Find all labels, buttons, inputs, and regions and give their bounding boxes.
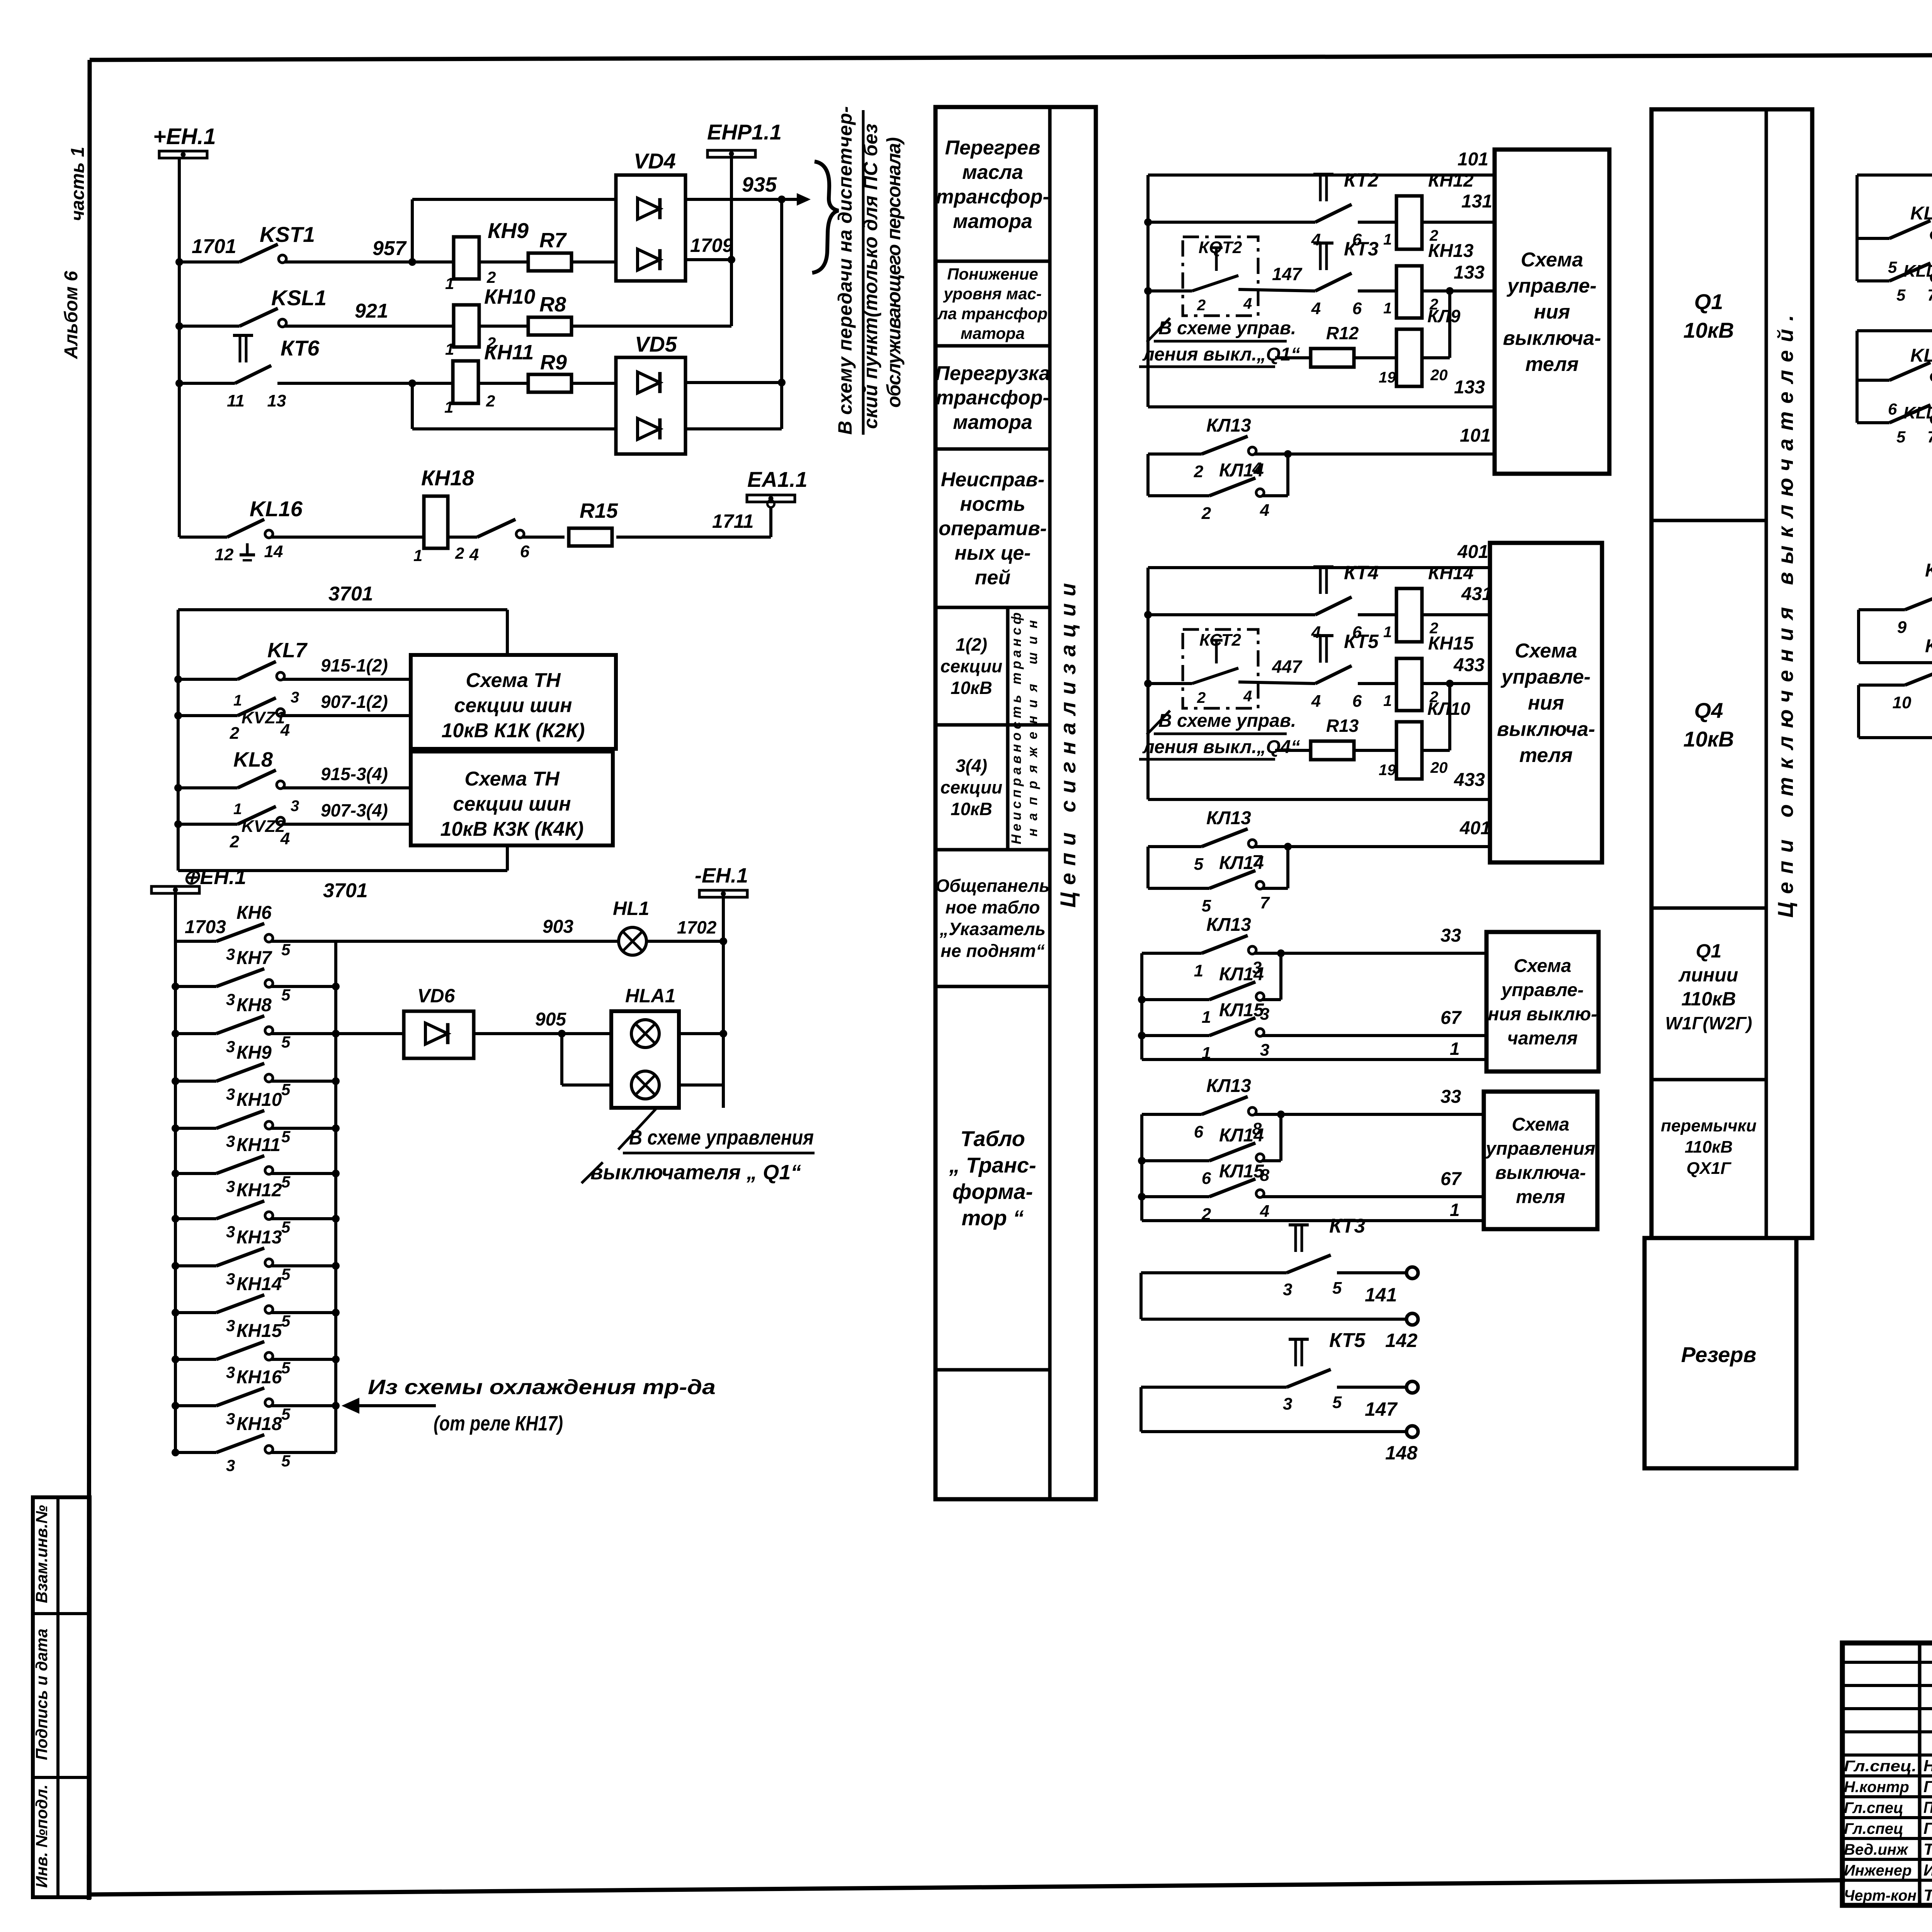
svg-text:110кВ: 110кВ (1685, 1138, 1733, 1156)
svg-text:1: 1 (1202, 1008, 1211, 1027)
svg-text:5: 5 (281, 1452, 291, 1470)
svg-text:R8: R8 (539, 293, 566, 316)
svg-text:5: 5 (281, 1173, 291, 1191)
svg-text:3: 3 (1283, 1395, 1292, 1413)
svg-text:трансфор-: трансфор- (936, 387, 1049, 409)
svg-text:7: 7 (1260, 893, 1270, 912)
svg-text:2: 2 (1201, 504, 1211, 523)
svg-text:5: 5 (1194, 855, 1204, 874)
svg-text:2: 2 (1197, 689, 1206, 706)
svg-text:957: 957 (372, 237, 407, 260)
svg-text:КН12: КН12 (236, 1180, 282, 1201)
svg-text:ных це-: ных це- (954, 542, 1031, 565)
svg-text:КЛ13: КЛ13 (1206, 808, 1251, 828)
svg-text:2: 2 (455, 544, 464, 562)
svg-text:1: 1 (445, 274, 454, 293)
svg-text:3: 3 (226, 1316, 235, 1335)
svg-text:5: 5 (281, 1033, 291, 1051)
svg-text:Горелик: Горелик (1923, 1777, 1932, 1796)
svg-text:КН9: КН9 (236, 1043, 272, 1063)
svg-text:6: 6 (1202, 1169, 1211, 1188)
svg-text:3(4): 3(4) (956, 755, 987, 776)
svg-text:теля: теля (1525, 353, 1578, 376)
svg-text:КН18: КН18 (236, 1414, 282, 1434)
svg-text:КН16: КН16 (236, 1367, 282, 1388)
svg-text:тор “: тор “ (961, 1206, 1024, 1230)
svg-text:10кВ: 10кВ (951, 799, 992, 819)
svg-text:3: 3 (226, 1177, 235, 1196)
svg-text:1702: 1702 (677, 917, 717, 937)
svg-text:Подпись и дата: Подпись и дата (32, 1629, 51, 1760)
svg-text:2: 2 (230, 724, 240, 743)
svg-text:1: 1 (413, 546, 422, 565)
svg-text:4: 4 (469, 545, 479, 564)
svg-text:110кВ: 110кВ (1681, 988, 1736, 1010)
svg-text:VD6: VD6 (417, 985, 455, 1007)
svg-text:управле-: управле- (1501, 980, 1584, 1000)
svg-text:Тимофеева: Тимофеева (1923, 1886, 1932, 1904)
svg-text:921: 921 (355, 300, 388, 322)
svg-text:EA1.1: EA1.1 (747, 467, 808, 492)
svg-text:6: 6 (1194, 1122, 1204, 1141)
svg-text:Альбом 6: Альбом 6 (61, 271, 82, 359)
svg-text:7: 7 (1927, 428, 1932, 446)
svg-text:-EH.1: -EH.1 (695, 864, 748, 887)
svg-text:3701: 3701 (328, 583, 373, 605)
svg-text:3: 3 (291, 689, 299, 706)
svg-text:1: 1 (1194, 961, 1203, 980)
svg-text:935: 935 (742, 173, 777, 196)
svg-text:Вед.инж: Вед.инж (1844, 1841, 1909, 1858)
svg-text:КЛ13: КЛ13 (1206, 915, 1251, 935)
svg-text:секции шин: секции шин (453, 793, 571, 815)
svg-text:KSL1: KSL1 (271, 286, 327, 310)
svg-text:В схему передачи на диспетчер-: В схему передачи на диспетчер- (834, 106, 856, 435)
svg-text:КН13: КН13 (1428, 241, 1474, 261)
svg-text:R9: R9 (540, 351, 567, 374)
svg-text:Цепи сигнализации: Цепи сигнализации (1056, 583, 1080, 908)
svg-text:КТ4: КТ4 (1344, 562, 1379, 583)
svg-text:В схеме управ.: В схеме управ. (1158, 711, 1296, 731)
svg-text:перемычки: перемычки (1661, 1116, 1757, 1135)
svg-text:Гл.спец: Гл.спец (1844, 1820, 1903, 1837)
svg-text:101: 101 (1458, 149, 1488, 170)
svg-text:2: 2 (1194, 462, 1204, 481)
svg-text:VD4: VD4 (634, 149, 676, 173)
svg-text:QX1Г: QX1Г (1686, 1159, 1731, 1178)
svg-text:1711: 1711 (712, 510, 754, 532)
svg-text:выключателя „ Q1“: выключателя „ Q1“ (590, 1161, 801, 1184)
svg-text:9: 9 (1897, 618, 1907, 637)
svg-text:5: 5 (281, 1265, 291, 1283)
svg-text:Понижение: Понижение (947, 265, 1038, 283)
svg-text:ления выкл.„Q4“: ления выкл.„Q4“ (1142, 737, 1300, 757)
svg-text:3: 3 (226, 945, 235, 963)
svg-text:Табло: Табло (960, 1126, 1025, 1151)
svg-text:3: 3 (1283, 1280, 1292, 1299)
svg-text:3: 3 (226, 1456, 235, 1475)
svg-text:14: 14 (264, 542, 283, 561)
svg-text:3: 3 (226, 1132, 235, 1150)
svg-text:907-3(4): 907-3(4) (321, 800, 388, 820)
svg-text:(от реле КН17): (от реле КН17) (434, 1412, 563, 1435)
svg-text:1: 1 (1450, 1200, 1460, 1220)
svg-text:1: 1 (1450, 1039, 1460, 1059)
svg-text:R12: R12 (1326, 323, 1359, 343)
svg-text:КЛ13: КЛ13 (1206, 415, 1251, 436)
svg-text:903: 903 (543, 917, 573, 937)
svg-text:Q1: Q1 (1696, 940, 1722, 962)
svg-text:Схема ТН: Схема ТН (464, 768, 560, 790)
svg-text:КН15: КН15 (1428, 633, 1474, 654)
svg-text:КН14: КН14 (236, 1274, 282, 1294)
svg-text:5: 5 (1332, 1393, 1342, 1412)
svg-text:5: 5 (1896, 428, 1906, 446)
svg-text:ния: ния (1534, 301, 1570, 323)
svg-text:KLD2: KLD2 (1925, 560, 1932, 581)
svg-text:ла трансфор: ла трансфор (937, 304, 1048, 323)
svg-text:КЛ14: КЛ14 (1219, 460, 1264, 481)
svg-text:905: 905 (535, 1009, 566, 1030)
svg-text:10кВ: 10кВ (1683, 727, 1734, 751)
svg-text:матора: матора (953, 210, 1032, 233)
svg-text:KVZ2: KVZ2 (241, 817, 285, 836)
svg-text:KLD2: KLD2 (1925, 636, 1932, 656)
svg-text:форма-: форма- (952, 1179, 1033, 1204)
svg-text:1: 1 (1383, 231, 1392, 248)
svg-text:КН7: КН7 (236, 948, 272, 968)
svg-text:В схеме управления: В схеме управления (629, 1126, 814, 1149)
svg-text:часть 1: часть 1 (68, 147, 88, 221)
svg-text:Взам.инв.№: Взам.инв.№ (32, 1505, 51, 1603)
svg-text:Резерв: Резерв (1681, 1342, 1757, 1367)
svg-text:19: 19 (1379, 762, 1396, 779)
svg-text:3: 3 (226, 1037, 235, 1056)
svg-text:133: 133 (1454, 262, 1485, 283)
svg-text:133: 133 (1454, 377, 1485, 398)
svg-text:КТ3: КТ3 (1344, 238, 1379, 260)
svg-text:401: 401 (1457, 542, 1488, 562)
svg-text:Иванова: Иванова (1923, 1861, 1932, 1879)
svg-text:выключа-: выключа- (1495, 1163, 1586, 1183)
svg-text:R15: R15 (580, 499, 618, 522)
svg-text:КН8: КН8 (236, 995, 272, 1015)
svg-text:4: 4 (1311, 692, 1321, 711)
svg-text:915-1(2): 915-1(2) (321, 655, 388, 675)
svg-text:101: 101 (1460, 425, 1491, 446)
svg-text:3: 3 (226, 1085, 235, 1103)
svg-text:ния выклю-: ния выклю- (1488, 1004, 1597, 1025)
svg-text:HL1: HL1 (613, 898, 649, 919)
svg-text:907-1(2): 907-1(2) (321, 692, 388, 712)
svg-text:6: 6 (1352, 692, 1362, 711)
svg-text:Пршусевский: Пршусевский (1923, 1798, 1932, 1816)
svg-text:Гл.спец: Гл.спец (1844, 1799, 1903, 1816)
svg-text:ский пункт(только для ПС без: ский пункт(только для ПС без (860, 124, 881, 429)
svg-text:Перегрузка: Перегрузка (935, 362, 1050, 384)
svg-text:выключа-: выключа- (1497, 718, 1595, 740)
svg-text:11: 11 (227, 391, 245, 410)
svg-text:линии: линии (1679, 964, 1738, 986)
svg-text:KL7: KL7 (267, 639, 308, 662)
svg-text:5: 5 (1888, 258, 1897, 276)
svg-text:Схема: Схема (1515, 640, 1577, 662)
svg-text:4: 4 (1243, 688, 1252, 705)
svg-text:Схема: Схема (1521, 249, 1583, 271)
svg-text:5: 5 (281, 1359, 291, 1377)
svg-text:1: 1 (1383, 300, 1392, 317)
svg-text:6: 6 (1352, 299, 1362, 318)
svg-text:20: 20 (1430, 759, 1448, 776)
svg-text:915-3(4): 915-3(4) (321, 764, 388, 784)
svg-text:1(2): 1(2) (956, 634, 987, 655)
svg-text:KL16: KL16 (250, 497, 303, 521)
svg-text:R13: R13 (1326, 716, 1359, 736)
svg-text:матора: матора (953, 411, 1032, 434)
svg-text:КЛ15: КЛ15 (1219, 1000, 1264, 1020)
svg-text:КТ6: КТ6 (281, 336, 320, 360)
svg-text:431: 431 (1461, 584, 1492, 604)
svg-text:секции: секции (940, 777, 1002, 798)
svg-text:Трипункова: Трипункова (1923, 1840, 1932, 1858)
svg-text:КЛ9: КЛ9 (1427, 306, 1461, 326)
svg-text:4: 4 (1260, 1202, 1269, 1221)
svg-text:13: 13 (267, 391, 286, 410)
svg-text:Гл.спец.: Гл.спец. (1844, 1758, 1917, 1775)
svg-text:секции: секции (940, 656, 1002, 676)
svg-text:КН14: КН14 (1428, 563, 1474, 583)
svg-text:КЛ14: КЛ14 (1219, 853, 1264, 873)
svg-text:Схема ТН: Схема ТН (466, 669, 561, 692)
svg-text:KLD2: KLD2 (1910, 203, 1932, 224)
svg-text:6: 6 (520, 542, 530, 561)
svg-text:447: 447 (1272, 656, 1303, 677)
svg-text:2: 2 (1197, 297, 1206, 314)
svg-text:не поднят“: не поднят“ (940, 940, 1045, 961)
svg-text:пей: пей (975, 566, 1010, 589)
svg-text:KVZ1: KVZ1 (241, 708, 285, 727)
svg-text:KST1: KST1 (260, 222, 315, 247)
svg-text:1: 1 (233, 801, 242, 818)
svg-text:КЛ14: КЛ14 (1219, 1125, 1264, 1146)
svg-text:131: 131 (1461, 191, 1492, 212)
svg-text:В схеме управ.: В схеме управ. (1158, 318, 1296, 338)
svg-text:выключа-: выключа- (1503, 327, 1601, 349)
svg-text:2: 2 (230, 832, 240, 851)
svg-text:„Указатель: „Указатель (939, 919, 1046, 939)
svg-text:масла: масла (962, 161, 1023, 184)
svg-text:33: 33 (1440, 925, 1461, 946)
svg-text:теля: теля (1519, 744, 1573, 767)
svg-text:20: 20 (1430, 367, 1448, 384)
svg-text:5: 5 (281, 940, 291, 959)
svg-text:Схема: Схема (1514, 956, 1571, 976)
svg-text:Неисправ-: Неисправ- (941, 468, 1044, 491)
svg-text:„ Транс-: „ Транс- (949, 1153, 1036, 1177)
svg-text:КН10: КН10 (236, 1090, 282, 1110)
svg-text:67: 67 (1440, 1169, 1462, 1189)
svg-text:трансфор-: трансфор- (936, 185, 1049, 208)
svg-text:10: 10 (1893, 693, 1912, 712)
svg-text:10кВ: 10кВ (951, 678, 992, 698)
svg-text:3: 3 (226, 990, 235, 1009)
svg-text:147: 147 (1272, 264, 1303, 284)
svg-text:12: 12 (215, 545, 234, 564)
svg-text:2: 2 (486, 268, 496, 286)
svg-text:управле-: управле- (1500, 666, 1591, 688)
svg-text:КН18: КН18 (421, 466, 474, 490)
svg-text:1: 1 (1383, 624, 1392, 641)
svg-text:VD5: VD5 (635, 332, 677, 356)
svg-text:4: 4 (1243, 295, 1252, 312)
svg-text:3: 3 (226, 1410, 235, 1428)
svg-text:КТ2: КТ2 (1344, 169, 1379, 191)
svg-text:Никитин: Никитин (1923, 1757, 1932, 1775)
svg-text:401: 401 (1459, 818, 1491, 838)
svg-text:433: 433 (1453, 655, 1485, 675)
svg-text:ное табло: ное табло (946, 897, 1040, 917)
svg-text:управле-: управле- (1506, 275, 1597, 297)
svg-text:КН6: КН6 (236, 903, 272, 923)
svg-text:5: 5 (281, 1405, 291, 1423)
svg-text:ления выкл.„Q1“: ления выкл.„Q1“ (1142, 344, 1300, 365)
svg-text:Инженер: Инженер (1844, 1862, 1912, 1879)
svg-text:КЛ13: КЛ13 (1206, 1076, 1251, 1096)
svg-text:19: 19 (1379, 369, 1396, 386)
svg-text:3: 3 (226, 1223, 235, 1241)
svg-text:148: 148 (1385, 1442, 1418, 1464)
svg-text:+EH.1: +EH.1 (153, 124, 216, 149)
svg-text:секции шин: секции шин (454, 694, 572, 717)
svg-text:КН13: КН13 (236, 1227, 282, 1248)
svg-text:433: 433 (1454, 770, 1485, 790)
svg-text:142: 142 (1385, 1330, 1418, 1351)
svg-text:W1Г(W2Г): W1Г(W2Г) (1665, 1013, 1752, 1033)
svg-text:КТ3: КТ3 (1329, 1215, 1365, 1237)
svg-text:HLA1: HLA1 (625, 985, 676, 1007)
svg-text:2: 2 (486, 392, 495, 410)
svg-text:33: 33 (1440, 1087, 1461, 1107)
svg-text:КН10: КН10 (484, 285, 535, 308)
svg-text:ния: ния (1528, 692, 1564, 714)
svg-text:Горедик: Горедик (1923, 1819, 1932, 1837)
svg-text:КН12: КН12 (1428, 170, 1474, 191)
svg-text:1709: 1709 (690, 235, 733, 256)
svg-text:3: 3 (226, 1363, 235, 1381)
svg-text:ность: ность (960, 493, 1025, 515)
svg-text:1: 1 (233, 692, 242, 709)
svg-text:EHP1.1: EHP1.1 (707, 120, 782, 144)
svg-text:4: 4 (1311, 299, 1321, 318)
svg-text:КН9: КН9 (488, 218, 529, 243)
svg-text:10кВ: 10кВ (1683, 318, 1734, 342)
svg-text:KLD2: KLD2 (1910, 345, 1932, 366)
svg-text:10кВ К1К (К2К): 10кВ К1К (К2К) (442, 719, 585, 742)
svg-text:матора: матора (961, 324, 1025, 342)
svg-text:5: 5 (1332, 1279, 1342, 1298)
svg-text:1701: 1701 (192, 235, 236, 258)
svg-text:КЛ15: КЛ15 (1219, 1161, 1264, 1182)
svg-text:147: 147 (1365, 1398, 1398, 1420)
svg-text:КЛ14: КЛ14 (1219, 964, 1264, 985)
svg-text:KLD4: KLD4 (1903, 403, 1932, 422)
svg-text:5: 5 (1202, 896, 1211, 915)
svg-text:KLD3: KLD3 (1903, 262, 1932, 281)
svg-text:КН11: КН11 (484, 341, 534, 364)
svg-text:Схема: Схема (1512, 1114, 1569, 1135)
svg-text:1: 1 (1383, 692, 1392, 709)
svg-text:5: 5 (281, 1218, 291, 1236)
svg-text:управления: управления (1485, 1139, 1595, 1159)
svg-text:Н.контр: Н.контр (1844, 1779, 1909, 1796)
svg-text:теля: теля (1516, 1187, 1565, 1207)
svg-text:оператив-: оператив- (939, 517, 1047, 540)
svg-text:10кВ К3К (К4К): 10кВ К3К (К4К) (440, 818, 584, 840)
svg-text:6: 6 (1888, 400, 1897, 418)
svg-text:4: 4 (1260, 501, 1269, 520)
svg-text:3: 3 (1260, 1041, 1269, 1060)
svg-text:1: 1 (444, 398, 453, 416)
svg-text:уровня мас-: уровня мас- (943, 285, 1042, 303)
svg-text:обслуживающего персонала): обслуживающего персонала) (883, 137, 905, 408)
svg-text:КН15: КН15 (236, 1321, 282, 1341)
svg-text:Черт-кон: Черт-кон (1844, 1887, 1917, 1904)
svg-text:1703: 1703 (185, 917, 226, 937)
svg-text:5: 5 (281, 1080, 291, 1099)
svg-text:Перегрев: Перегрев (945, 137, 1041, 159)
svg-text:KL8: KL8 (233, 748, 273, 771)
svg-text:Q4: Q4 (1694, 698, 1723, 723)
svg-text:1: 1 (445, 340, 454, 358)
svg-text:КТ5: КТ5 (1344, 631, 1379, 652)
svg-text:3701: 3701 (323, 879, 368, 902)
svg-text:Q1: Q1 (1694, 289, 1723, 314)
svg-text:5: 5 (281, 1312, 291, 1330)
svg-text:5: 5 (281, 1128, 291, 1146)
svg-text:Общепанель: Общепанель (935, 876, 1049, 896)
svg-text:7: 7 (1927, 286, 1932, 304)
svg-text:R7: R7 (539, 229, 567, 252)
svg-text:5: 5 (1896, 286, 1906, 304)
svg-text:3: 3 (291, 798, 299, 815)
svg-text:5: 5 (281, 986, 291, 1004)
svg-text:3: 3 (226, 1270, 235, 1288)
svg-text:Из схемы охлаждения тр-да: Из схемы охлаждения тр-да (368, 1376, 716, 1399)
svg-text:КН11: КН11 (236, 1135, 281, 1155)
svg-text:чателя: чателя (1507, 1028, 1578, 1049)
svg-text:Инв. №подл.: Инв. №подл. (32, 1784, 51, 1888)
svg-text:КТ5: КТ5 (1329, 1329, 1366, 1352)
svg-text:141: 141 (1365, 1284, 1397, 1306)
svg-text:67: 67 (1440, 1008, 1462, 1028)
